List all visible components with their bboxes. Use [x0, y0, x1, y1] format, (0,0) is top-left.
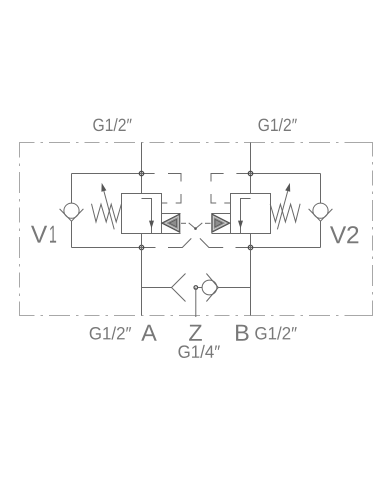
- enclosure dash-dot boundary top: [20, 142, 373, 144]
- label G1/4" bottom center: [178, 345, 219, 358]
- node: right bottom junction: [248, 245, 252, 249]
- pilot triangle V2: [212, 214, 230, 232]
- node: left bottom junction: [139, 245, 143, 249]
- spring of valve V2: [270, 204, 300, 222]
- wire: left outer loop left vertical upper: [71, 174, 73, 204]
- adjustment arrow V2 head: [285, 183, 290, 192]
- adjustment arrow V2 shaft: [277, 191, 287, 229]
- center pilot crossing dot: [194, 227, 197, 230]
- wire: left port vertical (top G1/2 to valve body): [141, 143, 143, 194]
- wire: right outer loop right vertical lower: [320, 221, 322, 247]
- pilot pocket V2 top line: [212, 213, 231, 215]
- pilot pocket V2 bottom line: [212, 233, 231, 235]
- wire: shuttle line right: [218, 287, 250, 289]
- wire: right outer loop right vertical upper: [320, 174, 322, 204]
- pilot dashed line V1 spring chamber: end dash: [162, 202, 168, 204]
- valve V2 internal flow path: [241, 199, 251, 234]
- node: shuttle Z junction: [194, 286, 198, 290]
- wire: left outer loop bottom horizontal (with stub to pilot): [72, 247, 156, 249]
- check valve V2: seat: [309, 209, 333, 221]
- check valve V1: seat: [60, 209, 84, 221]
- wire: right port vertical (top G1/2 to valve body): [250, 143, 252, 194]
- enclosure dash-dot boundary right: [372, 143, 374, 316]
- wire: shuttle line left: [142, 287, 172, 289]
- shuttle valve left seat chevron: [172, 274, 186, 302]
- label V2 letter V: [330, 226, 346, 243]
- boundary corner bottom-left: [20, 302, 34, 316]
- label G1/2" bottom left: [90, 327, 131, 340]
- check valve V2: ball: [313, 203, 328, 218]
- label port B: [236, 325, 248, 341]
- pilot pocket V1 bottom line: [162, 233, 181, 235]
- label G1/2" bottom right: [255, 327, 296, 340]
- wire: left outer loop left vertical lower: [71, 221, 73, 247]
- shuttle valve ball: [202, 280, 217, 295]
- spring of valve V1: [92, 204, 122, 222]
- center pilot dashed link: right dash: [205, 222, 211, 224]
- pilot pocket V1 top line: [162, 213, 181, 215]
- label V2 digit 2: [347, 226, 358, 243]
- valve body V2 square: [231, 194, 271, 234]
- valve V1 internal flow path: [142, 199, 152, 234]
- label port A: [141, 325, 157, 341]
- enclosure dash-dot boundary left: [19, 143, 21, 316]
- valve V2 internal arrowhead (down): [238, 221, 243, 229]
- wire: right outer loop top horizontal: [236, 173, 320, 175]
- label V1 letter V: [31, 226, 47, 243]
- label G1/2" top left: [93, 118, 131, 131]
- pilot dashed line V2 spring chamber: corner piece 1: [211, 174, 224, 182]
- shuttle valve right seat chevron: [206, 274, 218, 302]
- center pilot crossing v-jump: [189, 223, 203, 229]
- boundary corner top-left: [20, 143, 34, 157]
- wire: node-to-ball link: [198, 287, 203, 289]
- wire: right outer loop bottom horizontal (with stub to pilot): [236, 247, 321, 249]
- center pilot dashed link: left dash: [181, 222, 186, 224]
- pilot dashed line V1 spring chamber: corner piece 2: [176, 194, 181, 203]
- label V1 digit 1: [50, 226, 56, 243]
- boundary corner top-right: [359, 143, 373, 157]
- crossed pilot dashed line left: dash+diagonal: [168, 238, 191, 247]
- node: right top junction: [248, 171, 252, 175]
- valve V1 internal arrowhead (down): [149, 221, 154, 229]
- pilot triangle V1: [162, 214, 180, 232]
- label G1/2" top right: [259, 118, 297, 131]
- pilot dashed line V2 spring chamber: corner piece 2: [211, 194, 216, 203]
- check valve V1: ball: [64, 203, 79, 218]
- node: left top junction: [139, 171, 143, 175]
- enclosure dash-dot boundary bottom: [20, 315, 373, 317]
- label port Z: [189, 325, 202, 341]
- valve body V1 square: [122, 194, 162, 234]
- adjustment arrow V1 shaft: [104, 191, 114, 229]
- wire: right branch vertical lower (valve to B port): [250, 234, 252, 316]
- pilot dashed line V2 spring chamber: end dash: [224, 202, 230, 204]
- wire: left branch vertical lower (valve to A port): [141, 234, 143, 316]
- adjustment arrow V1 head: [101, 183, 106, 192]
- wire: Z port vertical: [195, 288, 197, 318]
- pilot dashed line V1 spring chamber: corner piece 1: [168, 174, 181, 182]
- crossed pilot dashed line right: diagonal+dash: [200, 238, 223, 247]
- wire: left outer loop top horizontal: [72, 173, 155, 175]
- boundary corner bottom-right: [359, 302, 373, 316]
